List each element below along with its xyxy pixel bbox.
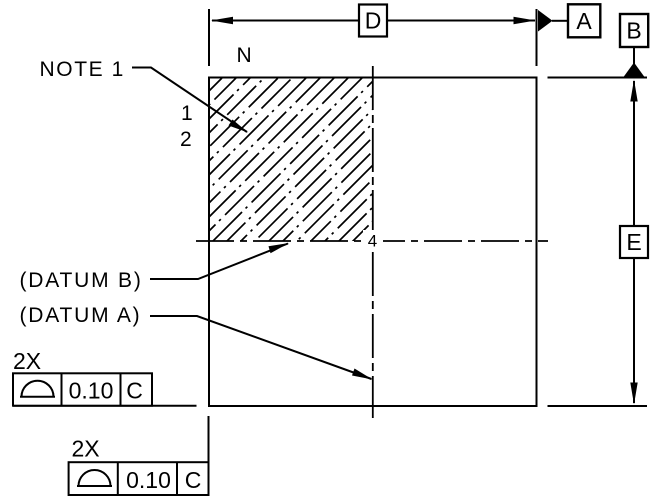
datum A triangle [538, 10, 553, 32]
FCF2 profile-of-surface symbol [77, 470, 112, 486]
datum A box [568, 4, 600, 37]
svg-text:E: E [626, 229, 641, 255]
horizontal centerline [196, 240, 548, 242]
svg-text:C: C [126, 377, 143, 403]
svg-text:B: B [626, 18, 641, 44]
E dim top arrowhead [630, 80, 637, 102]
svg-text:0.10: 0.10 [69, 377, 114, 403]
svg-text:2: 2 [180, 128, 192, 151]
svg-text:C: C [185, 467, 202, 493]
D dimension left extension line [208, 9, 210, 66]
center white gap [363, 230, 383, 252]
bottom-right extension line [548, 405, 648, 407]
E dim bottom arrowhead [630, 383, 637, 405]
svg-text:0.10: 0.10 [126, 467, 171, 493]
svg-text:(DATUM A): (DATUM A) [20, 304, 142, 327]
E dimension line [633, 81, 635, 403]
svg-text:D: D [365, 8, 382, 34]
D dimension right extension line [536, 9, 538, 66]
FCF1 profile-of-surface symbol [20, 381, 55, 397]
svg-text:NOTE 1: NOTE 1 [40, 58, 125, 81]
D label box [359, 5, 387, 37]
datum B triangle [624, 63, 645, 78]
FCF1 extension line [13, 405, 197, 407]
D dim right arrowhead [514, 17, 536, 24]
svg-text:N: N [237, 44, 252, 67]
svg-text:1: 1 [181, 102, 193, 125]
hatched quadrant (NOTE 1 area) [195, 0, 642, 259]
vertical centerline [372, 65, 374, 418]
DATUM A leader arrowhead [352, 369, 373, 380]
E label box [620, 226, 648, 258]
DATUM A leader [150, 316, 372, 379]
svg-text:A: A [576, 8, 592, 34]
top-right extension line [548, 77, 648, 79]
D dimension line [212, 20, 535, 22]
DATUM B leader arrowhead [269, 243, 290, 253]
DATUM B leader [150, 244, 288, 280]
datum B connector [633, 47, 635, 64]
D dim left arrowhead [211, 17, 233, 24]
datum A connector [552, 20, 568, 22]
package body outline [209, 78, 537, 407]
NOTE 1 leader [132, 68, 247, 133]
datum B box [620, 14, 648, 47]
FCF2 frame [69, 462, 209, 495]
FCF2 extension line [208, 416, 210, 462]
FCF1 frame [13, 373, 152, 405]
svg-text:4: 4 [368, 232, 377, 251]
svg-text:2X: 2X [13, 348, 41, 374]
svg-text:(DATUM B): (DATUM B) [20, 269, 143, 292]
NOTE 1 leader arrowhead [229, 120, 249, 133]
svg-text:2X: 2X [72, 436, 100, 462]
